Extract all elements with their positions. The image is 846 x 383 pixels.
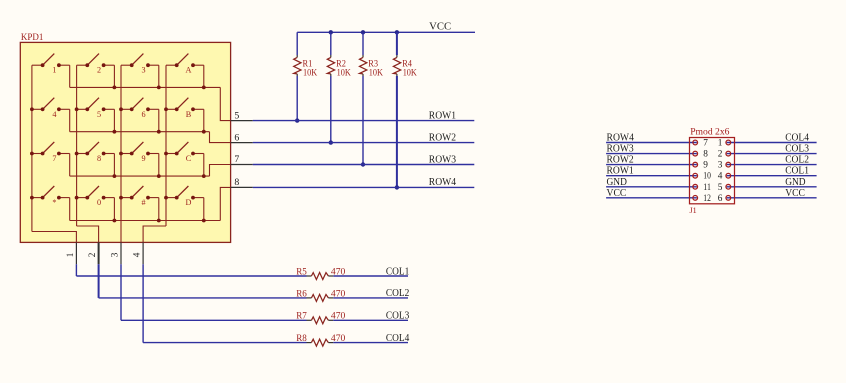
svg-text:COL4: COL4: [386, 333, 409, 344]
svg-text:10K: 10K: [303, 69, 317, 79]
svg-text:8: 8: [97, 154, 101, 163]
svg-text:*: *: [52, 198, 56, 207]
svg-text:2: 2: [87, 252, 97, 257]
svg-text:COL1: COL1: [386, 266, 409, 277]
svg-text:R6: R6: [296, 289, 307, 299]
svg-text:COL4: COL4: [785, 133, 809, 144]
svg-text:GND: GND: [607, 177, 628, 188]
svg-text:8: 8: [703, 150, 708, 160]
svg-text:R7: R7: [296, 312, 307, 322]
svg-text:ROW1: ROW1: [429, 110, 456, 121]
svg-text:1: 1: [65, 252, 75, 257]
svg-text:9: 9: [703, 161, 708, 171]
svg-text:ROW1: ROW1: [607, 166, 634, 177]
svg-text:2: 2: [97, 66, 101, 75]
svg-text:470: 470: [331, 334, 346, 344]
svg-text:KPD1: KPD1: [21, 33, 44, 43]
svg-text:A: A: [186, 66, 192, 75]
svg-text:3: 3: [718, 161, 723, 171]
svg-text:Pmod 2x6: Pmod 2x6: [690, 127, 729, 138]
svg-text:ROW2: ROW2: [429, 132, 456, 143]
svg-text:0: 0: [97, 198, 101, 207]
svg-text:7: 7: [234, 154, 239, 165]
svg-text:10K: 10K: [403, 69, 417, 79]
svg-text:ROW2: ROW2: [607, 155, 634, 166]
svg-text:470: 470: [331, 267, 346, 277]
svg-text:2: 2: [718, 150, 723, 160]
svg-text:GND: GND: [785, 177, 806, 188]
svg-text:1: 1: [718, 139, 723, 149]
svg-text:VCC: VCC: [429, 22, 451, 33]
svg-text:R8: R8: [296, 334, 307, 344]
svg-text:ROW3: ROW3: [429, 154, 456, 165]
svg-text:ROW4: ROW4: [429, 177, 456, 188]
svg-text:ROW3: ROW3: [607, 144, 634, 155]
svg-text:COL2: COL2: [386, 288, 409, 299]
svg-text:7: 7: [52, 154, 56, 163]
svg-text:ROW4: ROW4: [607, 133, 634, 144]
svg-text:R5: R5: [296, 267, 307, 277]
svg-text:10: 10: [703, 172, 711, 182]
svg-text:D: D: [186, 198, 192, 207]
svg-text:10K: 10K: [337, 69, 351, 79]
svg-text:3: 3: [110, 252, 120, 257]
svg-text:5: 5: [234, 110, 239, 121]
svg-text:B: B: [186, 110, 192, 119]
svg-text:5: 5: [718, 183, 723, 193]
svg-text:4: 4: [718, 172, 723, 182]
svg-text:COL1: COL1: [785, 166, 809, 177]
svg-text:1: 1: [52, 66, 56, 75]
svg-text:10K: 10K: [369, 69, 383, 79]
svg-text:VCC: VCC: [607, 188, 627, 199]
svg-text:6: 6: [141, 110, 145, 119]
svg-text:COL2: COL2: [785, 155, 809, 166]
svg-text:470: 470: [331, 312, 346, 322]
svg-text:4: 4: [132, 252, 142, 257]
svg-text:C: C: [186, 154, 192, 163]
svg-text:COL3: COL3: [785, 144, 809, 155]
svg-text:5: 5: [97, 110, 101, 119]
svg-text:470: 470: [331, 289, 346, 299]
svg-text:3: 3: [141, 66, 145, 75]
svg-text:12: 12: [703, 194, 711, 204]
svg-text:VCC: VCC: [785, 188, 805, 199]
svg-text:7: 7: [703, 139, 708, 149]
svg-text:11: 11: [703, 183, 711, 193]
svg-text:#: #: [141, 198, 145, 207]
svg-text:8: 8: [234, 177, 239, 188]
svg-text:6: 6: [718, 194, 723, 204]
svg-text:6: 6: [234, 132, 239, 143]
svg-text:COL3: COL3: [386, 311, 409, 322]
svg-text:9: 9: [141, 154, 145, 163]
svg-text:4: 4: [52, 110, 56, 119]
svg-text:J1: J1: [690, 205, 697, 215]
